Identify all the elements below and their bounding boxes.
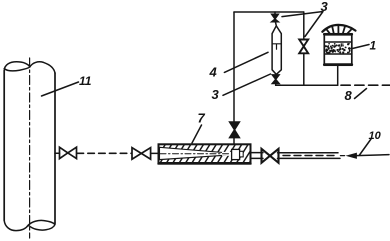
valve (hourglass) right branch: [299, 40, 308, 54]
leader line label 11: [42, 82, 79, 96]
leader line label 10: [360, 139, 372, 155]
elbow rotameter to bottom pipe: [276, 84, 338, 86]
svg-text:4: 4: [209, 65, 218, 80]
rotameter 4 body: [272, 26, 281, 75]
leader line label 1: [353, 45, 370, 49]
right branch upper: [303, 12, 305, 40]
vessel 1 down pipe: [337, 66, 339, 86]
svg-text:1: 1: [370, 39, 377, 53]
vessel 1 fan arc: [322, 25, 355, 32]
tank 11 centerline: [29, 58, 31, 238]
valve (bowtie) before injector: [132, 148, 151, 160]
feed pipe vertical: [233, 12, 235, 122]
outlet pipe lower line: [251, 157, 340, 159]
svg-text:3: 3: [321, 0, 329, 14]
injector 7 throat channel: [222, 152, 232, 156]
tank 11 broken-top curve: [4, 62, 55, 73]
svg-text:3: 3: [212, 87, 220, 102]
injector 7 mixing chamber: [232, 149, 240, 159]
leader line label 3 mid: [223, 74, 271, 95]
rotameter 4 float tick: [276, 45, 278, 50]
vessel 1 fan spokes: [327, 26, 351, 35]
top header pipe: [234, 11, 304, 13]
svg-text:10: 10: [369, 130, 382, 142]
vessel 1 band line lower: [324, 53, 352, 55]
tank 11 broken-bottom curve: [4, 220, 55, 230]
valve (bowtie) near tank: [60, 147, 77, 158]
leader line label 4: [224, 52, 268, 72]
injector 7 tip notch: [240, 151, 244, 157]
right branch lower: [303, 53, 305, 85]
leader line label 7: [192, 125, 202, 143]
svg-text:7: 7: [198, 111, 206, 126]
rotameter 4 level line: [272, 43, 281, 45]
main axis stub tank to valve: [55, 152, 60, 154]
vessel 1 band line upper: [324, 41, 352, 43]
svg-text:8: 8: [345, 88, 353, 103]
tank 11 right wall: [54, 73, 56, 223]
injector 7 axis dash-dot: [160, 153, 230, 155]
injector 7 hatched body: [159, 144, 251, 163]
leader lines label 3 top: [282, 12, 323, 37]
vessel 1 body: [324, 34, 352, 65]
outlet axis dashes: [283, 155, 338, 157]
valve (hourglass) below rotameter: [272, 75, 279, 84]
stub valve to injector: [151, 152, 158, 154]
outlet pipe upper line: [251, 152, 338, 154]
flow arrow 10: [341, 155, 345, 157]
leader slash label 8: [355, 89, 367, 99]
valve (bowtie) on outlet: [262, 149, 279, 163]
stub valve to injector top: [233, 138, 235, 144]
tank 11 left wall: [3, 71, 5, 221]
svg-text:11: 11: [79, 74, 92, 88]
stub to rotameter: [274, 22, 277, 26]
injector 7 converging wedge: [160, 147, 227, 159]
bottom dashed line 8: [341, 84, 390, 86]
valve (hourglass) above injector: [230, 122, 240, 138]
valve (hourglass) above rotameter 4: [272, 14, 279, 22]
vessel 1 granule stipple: [325, 43, 351, 55]
dashed pipe: [77, 152, 132, 154]
stub header to rotameter valve: [274, 12, 276, 14]
